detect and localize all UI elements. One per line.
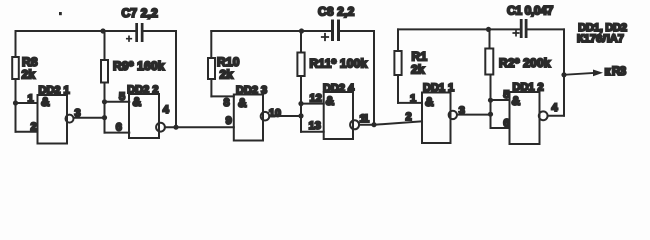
svg-text:2k: 2k <box>411 63 425 77</box>
wire pin12 DD2.4 <box>301 103 324 105</box>
speck artifact <box>59 12 62 15</box>
node C1 junction <box>173 125 178 130</box>
svg-text:2k: 2k <box>22 68 36 82</box>
svg-text:5: 5 <box>119 91 125 103</box>
gate DD2.1 <box>38 95 74 144</box>
capacitor C7 <box>127 23 144 42</box>
svg-text:DD1 2: DD1 2 <box>513 81 544 93</box>
svg-text:&: & <box>133 95 142 109</box>
node T2 junction <box>299 28 304 33</box>
wire pin3 output to node B <box>74 117 105 119</box>
svg-text:2: 2 <box>406 111 412 123</box>
gate DD1.2 <box>510 92 548 144</box>
wire pin6 DD2.2 <box>105 132 130 134</box>
svg-text:К176ЛА7: К176ЛА7 <box>577 33 624 45</box>
svg-text:&: & <box>326 94 335 108</box>
svg-text:13: 13 <box>309 120 321 132</box>
wire top stage1 <box>16 30 135 32</box>
svg-text:2: 2 <box>31 121 37 133</box>
wire output arrow <box>564 73 593 75</box>
node A junction <box>13 100 18 105</box>
wire pin1 DD2.1 <box>16 102 38 104</box>
wire DD1.2 output <box>548 115 565 117</box>
wire pin13 DD2.4 <box>301 131 324 133</box>
resistor R11 <box>297 31 304 132</box>
svg-text:8: 8 <box>224 97 230 109</box>
resistor R9 <box>101 31 108 133</box>
wire DD2.4 output to DD1.1 pin2 <box>359 121 422 125</box>
svg-text:C8 2,2: C8 2,2 <box>318 5 355 19</box>
svg-text:C7 2,2: C7 2,2 <box>122 6 159 20</box>
wire C8 to feedback corner <box>340 30 374 32</box>
wire DD2.2 output to DD2.3 pin9 <box>165 126 234 128</box>
svg-text:&: & <box>425 95 434 109</box>
node T1 junction <box>100 28 105 33</box>
gate DD2.2 <box>129 94 165 138</box>
svg-text:R2* 200k: R2* 200k <box>499 56 551 70</box>
node D junction dots <box>298 101 303 106</box>
wire pin8 DD2.3 <box>211 95 233 97</box>
node B junction dots <box>102 99 107 104</box>
wire pin5 DD1.2 <box>491 99 510 101</box>
svg-text:&: & <box>238 96 247 110</box>
svg-text:R11* 100k: R11* 100k <box>310 56 368 70</box>
wire feedback vertical stage1 <box>175 31 177 127</box>
svg-text:к R3: к R3 <box>605 64 627 78</box>
wire C1 to output corner <box>528 28 565 30</box>
wire output vertical <box>563 29 565 115</box>
wire pin2 DD2.1 <box>16 131 38 133</box>
svg-text:4: 4 <box>163 104 170 116</box>
svg-text:DD2 3: DD2 3 <box>236 85 267 97</box>
node T3 junction <box>486 27 491 32</box>
wire feedback vertical stage2 <box>373 31 375 125</box>
resistor R1 <box>394 29 401 103</box>
svg-text:4: 4 <box>552 102 559 114</box>
wire DD2.3 output to node D <box>269 115 301 117</box>
svg-text:6: 6 <box>116 121 122 133</box>
svg-text:12: 12 <box>310 93 322 105</box>
svg-text:2k: 2k <box>220 68 234 82</box>
svg-text:R1: R1 <box>412 50 428 64</box>
wire top stage2 <box>211 30 331 32</box>
node E junction dots <box>488 98 493 103</box>
svg-text:DD1 1: DD1 1 <box>423 82 454 94</box>
capacitor C8 <box>322 20 340 42</box>
svg-text:1: 1 <box>28 93 34 105</box>
svg-text:R9* 160k: R9* 160k <box>113 59 165 73</box>
node OUT junction <box>561 72 566 77</box>
gate DD2.4 <box>324 92 359 139</box>
wire pin5 DD2.2 <box>105 101 130 103</box>
svg-text:1: 1 <box>410 93 416 105</box>
svg-text:9: 9 <box>226 115 232 127</box>
wire C7 to feedback corner <box>144 30 177 32</box>
svg-text:&: & <box>41 95 50 109</box>
wire pin1 DD1.1 <box>398 102 422 104</box>
gate DD2.3 <box>234 95 270 141</box>
resistor R10 <box>208 31 215 96</box>
capacitor C1 <box>513 19 527 38</box>
wire pin6 DD1.2 <box>491 127 510 129</box>
svg-text:DD2 4: DD2 4 <box>323 83 355 95</box>
resistor R8 <box>12 31 19 132</box>
node C2 junction <box>371 122 376 127</box>
resistor R2 <box>485 29 493 128</box>
svg-text:&: & <box>512 94 521 108</box>
gate DD1.1 <box>422 93 457 144</box>
svg-text:C1 0,047: C1 0,047 <box>507 4 554 18</box>
arrowhead <box>593 70 603 77</box>
svg-text:10: 10 <box>269 108 281 120</box>
wire DD1.1 output to node E <box>457 114 491 116</box>
wire top stage3 <box>398 28 520 30</box>
